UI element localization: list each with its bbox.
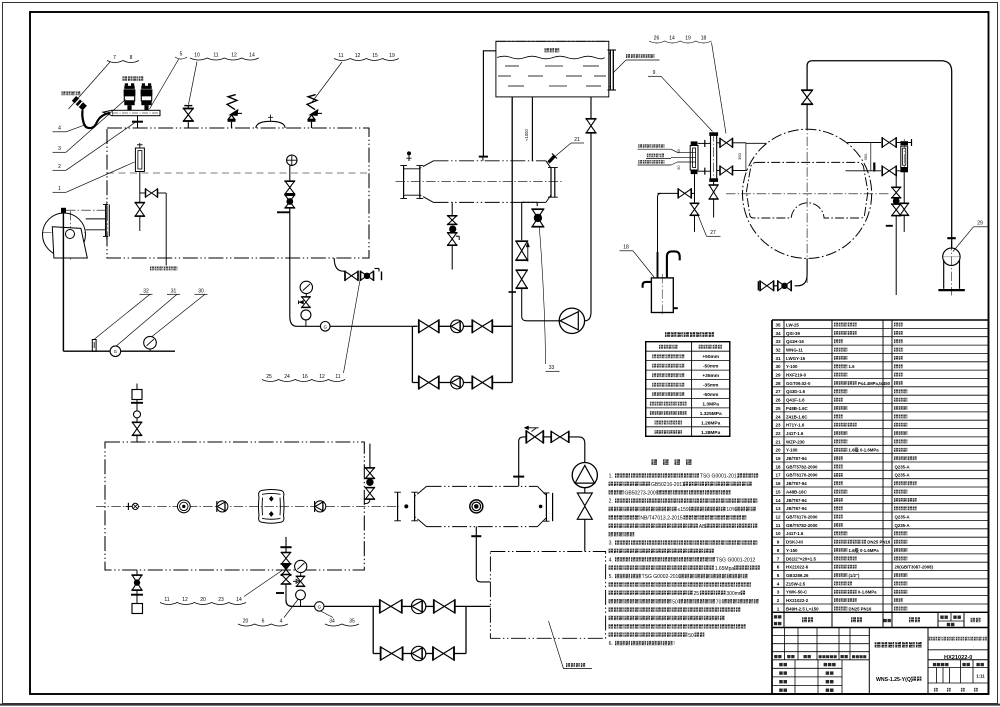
svg-text:31: 31 <box>775 356 781 361</box>
svg-text:35: 35 <box>775 322 781 327</box>
svg-text:GB50216-2011: GB50216-2011 <box>651 482 685 488</box>
burner gun check B <box>314 501 316 512</box>
BOM header row <box>772 611 989 613</box>
right column drains <box>895 171 897 187</box>
left column valves to circle <box>717 142 720 144</box>
svg-text:Q235-A: Q235-A <box>895 464 910 469</box>
svg-text:5.: 5. <box>609 574 613 580</box>
svg-text:3: 3 <box>777 590 780 595</box>
svg-text:Y-150: Y-150 <box>786 548 798 553</box>
svg-text:16: 16 <box>302 374 308 380</box>
svg-text:(1/2"): (1/2") <box>849 573 860 578</box>
economizer blowdown valve 33 <box>532 209 544 218</box>
BOM parts table <box>771 320 773 694</box>
svg-text:21: 21 <box>775 439 781 444</box>
svg-text:D61/2"×20×1.5: D61/2"×20×1.5 <box>786 556 816 561</box>
lower boiler centerline <box>96 505 399 507</box>
svg-text:≈1000: ≈1000 <box>524 129 529 141</box>
svg-text:12: 12 <box>231 53 237 59</box>
economizer body 节能器 <box>434 160 546 162</box>
svg-text:HXF219-0: HXF219-0 <box>786 373 807 378</box>
svg-text:Y-100: Y-100 <box>786 364 798 369</box>
svg-text:14: 14 <box>669 36 675 42</box>
blowdown to sample cooler <box>658 192 695 194</box>
left gauge drain <box>694 174 696 203</box>
svg-text:-50mm: -50mm <box>703 364 718 370</box>
svg-text:50: 50 <box>677 149 681 153</box>
boiler rear circle <box>743 129 872 258</box>
svg-text:22: 22 <box>775 431 781 436</box>
svg-text:34: 34 <box>775 331 781 336</box>
svg-text:18: 18 <box>775 464 781 469</box>
feed pumps parallel branches <box>372 606 374 653</box>
svg-text:30: 30 <box>775 364 781 369</box>
svg-text:1.: 1. <box>609 474 613 480</box>
svg-text:1.3MPa: 1.3MPa <box>702 402 719 408</box>
flame sight glass <box>259 489 285 523</box>
svg-text:27: 27 <box>775 389 781 394</box>
gas instruments line <box>63 350 175 352</box>
flow meter G on feed line <box>320 322 330 332</box>
left column-gauge links <box>698 142 711 144</box>
circle centerlines <box>806 106 808 283</box>
svg-text:25: 25 <box>266 374 272 380</box>
svg-text:NB/T47013.2-2015: NB/T47013.2-2015 <box>640 516 682 522</box>
svg-text:11: 11 <box>776 523 781 528</box>
svg-text:4: 4 <box>777 581 780 586</box>
boiler shell (front view) <box>107 128 369 258</box>
pressure gauge pigtail <box>82 110 110 128</box>
svg-text:28: 28 <box>775 381 781 386</box>
svg-text:5: 5 <box>180 52 183 58</box>
svg-text:+50mm: +50mm <box>702 354 719 360</box>
circle bottom blowdown <box>795 258 808 285</box>
svg-text:1.28MPa: 1.28MPa <box>701 430 721 436</box>
svg-text:12: 12 <box>355 53 361 59</box>
svg-text:P48B-1.6C: P48B-1.6C <box>786 406 809 411</box>
svg-text:1.65Mpa: 1.65Mpa <box>715 566 735 572</box>
svg-text:350: 350 <box>737 152 742 159</box>
svg-text:!: ! <box>673 641 674 647</box>
svg-text:9: 9 <box>777 540 780 545</box>
svg-text:8: 8 <box>777 548 780 553</box>
svg-text:AB: AB <box>699 524 706 530</box>
right capped nozzle <box>873 163 875 172</box>
tank downpipe to feed pumps <box>511 97 513 326</box>
svg-text:2: 2 <box>777 598 780 603</box>
steam outlet valve above circle <box>806 104 808 129</box>
pump outlet valve (vertical bowtie) <box>577 493 592 506</box>
svg-text:50: 50 <box>672 599 678 605</box>
label 压力控制 <box>123 76 128 80</box>
svg-text:13: 13 <box>775 506 781 511</box>
svg-text:11: 11 <box>164 597 169 603</box>
svg-text:1:11: 1:11 <box>976 674 985 679</box>
svg-text:GB50273-2009: GB50273-2009 <box>625 490 659 496</box>
svg-text:YWK-50-C: YWK-50-C <box>786 590 808 595</box>
svg-text:G: G <box>323 324 327 329</box>
svg-text:GB/T6170-2000: GB/T6170-2000 <box>786 473 818 478</box>
svg-text:300mm: 300mm <box>726 591 743 597</box>
svg-text:30: 30 <box>198 289 204 295</box>
drawing title 管路阀门仪表图 <box>875 642 881 648</box>
valve 10 on boiler top <box>187 122 189 129</box>
svg-text:6.: 6. <box>609 641 613 647</box>
svg-text:TSG G0002-2010: TSG G0002-2010 <box>642 574 682 580</box>
sampling branch valve <box>140 192 146 194</box>
svg-text:+35mm: +35mm <box>702 373 719 379</box>
svg-text:29: 29 <box>775 373 781 378</box>
svg-text:TSG G0001-2012: TSG G0001-2012 <box>700 474 740 480</box>
safety valve B <box>311 122 313 128</box>
stage mark cells <box>928 659 989 661</box>
svg-text:1.6级 0-1.6MPa: 1.6级 0-1.6MPa <box>849 447 880 454</box>
svg-text:LWGY-16: LWGY-16 <box>786 356 806 361</box>
label 压力接头 <box>62 91 66 95</box>
svg-text:32: 32 <box>775 348 781 353</box>
svg-text:G: G <box>114 349 117 354</box>
right column bottom line <box>846 170 882 172</box>
sight port (double circle) <box>177 500 190 513</box>
svg-text:27: 27 <box>710 230 716 236</box>
lower boiler shell <box>105 442 364 570</box>
sample cooler 18 <box>651 278 673 313</box>
svg-text:WNG-11: WNG-11 <box>786 348 803 353</box>
svg-text:26: 26 <box>654 36 660 42</box>
svg-text:26: 26 <box>775 398 781 403</box>
svg-text:QSI-39: QSI-39 <box>786 331 800 336</box>
svg-text:7: 7 <box>113 55 116 61</box>
upper boiler blowdown <box>334 258 344 271</box>
feedwater downpipe <box>289 208 291 317</box>
steam pipe to sample cylinder <box>807 61 952 249</box>
svg-text:21: 21 <box>574 137 580 143</box>
svg-text:18: 18 <box>623 245 629 251</box>
water level gauge 1 in boiler <box>139 143 141 148</box>
company name <box>929 637 933 641</box>
svg-text:34: 34 <box>329 619 335 625</box>
svg-text:14: 14 <box>249 53 255 59</box>
settings table title 节点控制整定值表 <box>665 332 670 337</box>
svg-text:8: 8 <box>130 55 133 61</box>
svg-text:19: 19 <box>389 53 395 59</box>
svg-text:-35mm: -35mm <box>703 383 718 389</box>
svg-text:20(GB/T3087-2008): 20(GB/T3087-2008) <box>895 565 934 570</box>
svg-text:4: 4 <box>280 619 283 625</box>
svg-text:B49H-2.5 L=150: B49H-2.5 L=150 <box>786 606 819 611</box>
safety valve A <box>231 122 233 128</box>
svg-text:6: 6 <box>777 565 780 570</box>
water level labels <box>638 144 642 148</box>
manifold left header <box>411 326 413 382</box>
lower boiler bottom stack <box>136 570 138 575</box>
tank outlet valve to circulation pump <box>590 97 592 118</box>
tank label 软水箱 <box>545 48 549 52</box>
svg-text:3.: 3. <box>609 541 613 547</box>
svg-text:1: 1 <box>777 606 780 611</box>
svg-text:0-1.6MPa: 0-1.6MPa <box>858 590 877 595</box>
svg-text:WZP-230: WZP-230 <box>786 439 805 444</box>
right water column glass gauge <box>901 146 908 167</box>
title block <box>772 693 989 695</box>
burner gun check A <box>216 501 218 512</box>
burner body <box>52 227 87 258</box>
svg-text:Q43D-1.6: Q43D-1.6 <box>786 389 806 394</box>
svg-text:9: 9 <box>653 70 656 76</box>
circulation pump <box>559 308 584 333</box>
lower boiler top stack <box>136 384 138 390</box>
gas supply pipe <box>62 213 64 351</box>
svg-text:GB/T6170-2000: GB/T6170-2000 <box>786 515 818 520</box>
economizer bottom outlet to circulation pump <box>522 202 538 240</box>
boiler internal pressure gauge <box>287 155 297 165</box>
label 软化水箱 <box>566 663 570 667</box>
svg-text:JB/T87-94: JB/T87-94 <box>786 481 807 486</box>
svg-text:20: 20 <box>243 619 249 625</box>
left column drain valves <box>713 182 715 185</box>
label 玻璃管水位计 <box>626 54 630 58</box>
tech requirements title 技术要求 <box>652 459 658 464</box>
feedwater inlet valves in boiler <box>289 165 291 181</box>
economizer inlet tick from tank <box>482 157 484 161</box>
svg-text:Z41B-1.6C: Z41B-1.6C <box>786 414 808 419</box>
svg-text:7: 7 <box>777 556 780 561</box>
svg-text:J41T-1.6: J41T-1.6 <box>786 531 804 536</box>
svg-text:Y-100: Y-100 <box>786 448 798 453</box>
svg-text:14: 14 <box>775 498 781 503</box>
svg-text:50: 50 <box>688 633 694 639</box>
manifold bottom branch <box>412 382 512 384</box>
svg-text:JB/T87-94: JB/T87-94 <box>786 456 807 461</box>
economizer outlet pipe to tank <box>531 97 533 161</box>
lower economizer top stub <box>513 476 524 478</box>
svg-text:Q235-A: Q235-A <box>895 523 910 528</box>
economizer body (lower) <box>427 485 538 487</box>
svg-text:Q41F-1.6: Q41F-1.6 <box>786 398 805 403</box>
svg-text:Z15W-2.5: Z15W-2.5 <box>786 581 806 586</box>
svg-text:DN25 PN16: DN25 PN16 <box>867 540 891 545</box>
svg-text:GGT09.02-0: GGT09.02-0 <box>786 381 811 386</box>
burner fan housing <box>43 213 86 256</box>
tank water surface <box>497 56 605 59</box>
svg-text:1.325MPa: 1.325MPa <box>700 411 722 417</box>
svg-text:25: 25 <box>775 406 781 411</box>
svg-text:Q235-A: Q235-A <box>895 515 910 520</box>
svg-text:1.26MPa: 1.26MPa <box>701 420 721 426</box>
flow meter G <box>315 602 324 611</box>
svg-text:GB/T5782-2000: GB/T5782-2000 <box>786 464 818 469</box>
svg-text:6: 6 <box>262 619 265 625</box>
svg-text:JB/T87-94: JB/T87-94 <box>786 498 807 503</box>
svg-text:29: 29 <box>977 221 983 227</box>
svg-text:HX21022-2: HX21022-2 <box>786 598 809 603</box>
level lines to gauge <box>671 149 678 152</box>
svg-text:16: 16 <box>775 481 781 486</box>
svg-text:19: 19 <box>775 456 781 461</box>
svg-text:1: 1 <box>58 186 61 192</box>
manifold top branch valves and check <box>419 320 429 333</box>
blowdown valves <box>345 271 352 280</box>
svg-text:GB/T5782-2000: GB/T5782-2000 <box>786 523 818 528</box>
thermometer 21 angled <box>549 156 555 163</box>
svg-text:10: 10 <box>194 53 200 59</box>
economizer centerline <box>396 181 563 183</box>
svg-text:H71Y-1.6: H71Y-1.6 <box>786 423 805 428</box>
svg-text:3: 3 <box>58 146 61 152</box>
svg-text:4: 4 <box>58 126 61 132</box>
svg-text:2: 2 <box>58 164 61 170</box>
ignition electrode <box>126 505 132 507</box>
economizer left drain valves <box>451 202 453 216</box>
sample cylinder 29 <box>943 248 960 265</box>
svg-text:LW-25: LW-25 <box>786 322 799 327</box>
svg-text:50: 50 <box>677 165 681 169</box>
svg-text:TSG G0001-2012: TSG G0001-2012 <box>716 557 756 563</box>
svg-text:Q41H-16: Q41H-16 <box>786 339 804 344</box>
svg-text:31: 31 <box>171 289 177 295</box>
tank outlet to economizer inlet <box>483 51 496 157</box>
manifold right header (tank downpipe) <box>511 326 513 382</box>
lower boiler pressure gauge group <box>285 537 287 600</box>
revision grid <box>772 635 869 637</box>
svg-text:GB3289.26: GB3289.26 <box>786 573 809 578</box>
feed riser check valve line <box>519 437 526 474</box>
main steam dome <box>256 121 285 128</box>
tank water dashes <box>505 65 519 67</box>
gas pressure sensor 32 <box>92 340 96 352</box>
signature grid <box>772 667 842 669</box>
svg-text:2.: 2. <box>609 499 613 505</box>
settings table <box>646 342 730 437</box>
svg-text:≤159: ≤159 <box>678 507 689 513</box>
feedwater main line <box>292 605 373 607</box>
burner snout to boiler flange <box>86 218 106 220</box>
soft water tank 软水箱 <box>496 41 609 97</box>
pressure controllers and manifold <box>112 110 160 115</box>
gauge on branch <box>295 560 307 572</box>
svg-text:1.6级 0-1.6MPa: 1.6级 0-1.6MPa <box>849 547 880 554</box>
svg-text:4.: 4. <box>609 557 613 563</box>
svg-text:14: 14 <box>236 597 242 603</box>
svg-text:11: 11 <box>213 53 218 59</box>
svg-text:10: 10 <box>775 531 781 536</box>
svg-text:23: 23 <box>775 423 781 428</box>
svg-text:15: 15 <box>775 489 781 494</box>
thermometer on economizer <box>408 156 410 162</box>
boiler front flange <box>105 205 107 237</box>
sampling pipe to cooler <box>165 193 167 266</box>
svg-text:23: 23 <box>218 597 224 603</box>
svg-text:17: 17 <box>775 473 781 478</box>
svg-text:P≤4.4MPa,t≤450: P≤4.4MPa,t≤450 <box>858 381 891 386</box>
leader 33 <box>539 227 545 364</box>
left water column 水位报警器 <box>711 135 717 179</box>
boiler shell section outline <box>747 162 868 218</box>
svg-text:A48B-16C: A48B-16C <box>786 489 808 494</box>
softened water tank 软化水箱 <box>490 552 605 639</box>
svg-text:33: 33 <box>549 365 555 371</box>
svg-text:70: 70 <box>716 599 722 605</box>
svg-text:24: 24 <box>775 414 781 419</box>
dim 350 right <box>870 143 872 171</box>
economizer left flanges <box>403 166 405 199</box>
lower economizer left flanges <box>397 492 399 521</box>
lower economizer center coil <box>470 500 483 513</box>
svg-text:1.6: 1.6 <box>849 364 856 369</box>
svg-text:18: 18 <box>701 36 707 42</box>
svg-text:HX21022-6: HX21022-6 <box>786 565 809 570</box>
gas line node <box>61 208 66 213</box>
svg-text:WNS-1.25-Y(Q): WNS-1.25-Y(Q) <box>876 677 913 683</box>
gauge drain valve <box>139 172 141 203</box>
svg-text:Q235-A: Q235-A <box>895 473 910 478</box>
svg-text:-50mm: -50mm <box>703 392 718 398</box>
gauge assembly on feed line <box>300 281 312 293</box>
svg-text:5: 5 <box>777 573 780 578</box>
svg-text:20: 20 <box>775 448 781 453</box>
svg-text:DN25 PN16: DN25 PN16 <box>849 606 873 611</box>
feed line top branch <box>297 325 412 327</box>
label 接取样冷却器 <box>150 267 154 271</box>
svg-text:12: 12 <box>182 597 188 603</box>
gas gauge 30 <box>144 336 157 349</box>
gas meter 31 <box>110 346 121 357</box>
svg-text:25: 25 <box>694 591 700 597</box>
boiler water level line <box>107 172 369 174</box>
svg-text:32: 32 <box>143 289 149 295</box>
svg-text:35: 35 <box>349 619 355 625</box>
right column top line <box>847 142 881 144</box>
svg-text:10%: 10% <box>726 507 737 513</box>
svg-text:11: 11 <box>338 53 343 59</box>
cylinder 29 inlet tick <box>947 237 956 239</box>
check valve on circulation line <box>516 241 528 251</box>
left column glass gauge <box>690 146 698 171</box>
lower economizer bottom drain to tank <box>471 535 481 537</box>
svg-text:12: 12 <box>319 374 325 380</box>
svg-text:DSKJ-III: DSKJ-III <box>786 540 803 545</box>
svg-text:24: 24 <box>284 374 290 380</box>
svg-text:20: 20 <box>200 597 206 603</box>
svg-text:350: 350 <box>863 153 868 160</box>
dim 350 left <box>745 143 747 171</box>
economizer right flange <box>550 168 552 198</box>
svg-text:J41T-1.6: J41T-1.6 <box>786 431 804 436</box>
svg-text:JB/T87-94: JB/T87-94 <box>786 506 807 511</box>
tank glass level gauge <box>609 50 611 90</box>
vertical feed pump <box>572 463 597 488</box>
svg-text:11: 11 <box>335 374 340 380</box>
lower boiler feed inlet valves <box>369 444 371 468</box>
svg-text:15: 15 <box>372 53 378 59</box>
svg-text:12: 12 <box>775 515 781 520</box>
svg-text:19: 19 <box>685 36 691 42</box>
lower economizer right flanges <box>545 493 547 521</box>
svg-text:33: 33 <box>775 339 781 344</box>
